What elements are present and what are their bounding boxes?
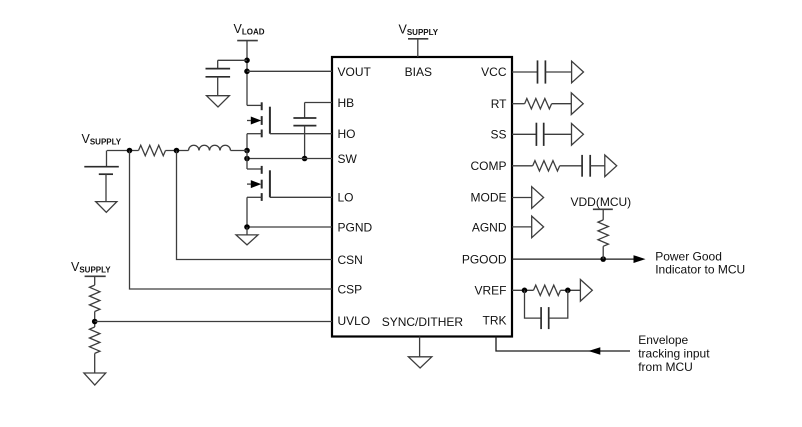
svg-text:Power Good: Power Good: [655, 249, 722, 263]
ground SS: [572, 124, 584, 146]
arrow PGOOD output: [634, 255, 646, 263]
ground VREF: [580, 280, 592, 302]
wire bootstrap cap to SW: [304, 126, 306, 159]
node junction dot VREF left: [522, 288, 528, 294]
node junction dot VLOAD/VOUT: [244, 69, 250, 75]
svg-text:from MCU: from MCU: [638, 360, 693, 374]
node junction dot VREF right: [565, 288, 571, 294]
wire UVLO pin: [95, 321, 332, 323]
node junction dot VSUPPLY/CSP: [127, 148, 133, 154]
node VSUPPLY UVLO rail: [85, 276, 106, 285]
wire HB pin lead: [305, 103, 332, 119]
capacitor Cout: [206, 69, 231, 77]
node junction dot bootstrap/SW: [302, 156, 308, 162]
svg-text:SYNC/DITHER: SYNC/DITHER: [382, 315, 464, 329]
svg-text:Indicator to MCU: Indicator to MCU: [655, 262, 745, 276]
wire pull-up to PGOOD: [602, 246, 604, 259]
wire SS cap to ground: [544, 133, 572, 135]
wire shunt to inductor: [166, 150, 189, 152]
wire CSP pin: [130, 151, 333, 290]
wire RUV2 to ground: [94, 353, 96, 373]
resistor COMP: [533, 161, 560, 171]
wire PGND pin: [247, 226, 332, 228]
node junction dot SW/inductor: [244, 148, 250, 154]
wire TRK pin: [496, 337, 630, 352]
svg-text:HB: HB: [338, 96, 355, 110]
wire inductor to SW node: [231, 150, 248, 152]
wire SW pin: [247, 158, 332, 160]
ground Cout: [207, 96, 230, 107]
transistor Q2 low-side MOSFET: [247, 166, 270, 227]
wire VREF cap branch left: [525, 290, 542, 318]
wire COMP pin: [512, 165, 533, 167]
wire VREF resistor to ground: [561, 289, 581, 291]
wire VCC cap to ground: [545, 71, 571, 73]
svg-text:PGOOD: PGOOD: [462, 252, 507, 266]
svg-text:Envelope: Envelope: [638, 333, 688, 347]
capacitor COMP: [582, 155, 590, 177]
svg-text:MODE: MODE: [471, 191, 507, 205]
node junction dot PGND: [244, 224, 250, 230]
wire SW node vertical to Q2 drain: [246, 151, 248, 170]
svg-text:tracking input: tracking input: [638, 347, 710, 361]
svg-text:BIAS: BIAS: [405, 65, 432, 79]
svg-text:COMP: COMP: [471, 159, 507, 173]
op-amp U1 IC body: [332, 57, 512, 337]
svg-text:LO: LO: [338, 190, 354, 204]
svg-text:VREF: VREF: [474, 283, 506, 297]
node junction dot SW wire: [244, 156, 250, 162]
svg-text:RT: RT: [491, 97, 507, 111]
wire MODE pin: [512, 197, 532, 199]
wire PGOOD pin: [512, 258, 634, 260]
node VDD(MCU) rail: [593, 209, 613, 220]
node VSUPPLY BIAS rail: [408, 39, 428, 57]
ground RT: [571, 93, 583, 115]
wire HO pin (gate of Q1): [270, 133, 332, 135]
svg-text:SS: SS: [490, 127, 506, 141]
svg-text:VOUT: VOUT: [338, 65, 372, 79]
node junction dot UVLO: [92, 319, 98, 325]
capacitor bootstrap HB-SW: [293, 118, 316, 126]
capacitor VREF: [541, 307, 549, 329]
wire RUV1 to node: [94, 312, 96, 328]
ground AGND: [532, 216, 544, 238]
svg-text:VCC: VCC: [481, 65, 507, 79]
inductor L1: [189, 145, 231, 150]
wire Cin bottom lead: [105, 174, 107, 201]
wire VLOAD node vertical to Q1 drain: [246, 60, 248, 105]
wire COMP resistor to cap: [560, 165, 582, 167]
svg-text:CSP: CSP: [338, 282, 363, 296]
wire VCC pin: [512, 71, 538, 73]
wire SS pin: [512, 133, 536, 135]
resistor RT: [525, 99, 552, 109]
svg-text:SW: SW: [338, 152, 358, 166]
arrow TRK input: [588, 347, 600, 355]
ground MODE: [532, 187, 544, 209]
capacitor SS: [536, 123, 543, 146]
wire CSN pin: [177, 151, 333, 260]
wire VREF cap branch right: [549, 290, 568, 318]
node VLOAD supply rail: [237, 41, 258, 61]
ground UVLO divider: [84, 373, 106, 385]
resistor RUV1: [90, 285, 100, 311]
capacitor Cin lead: [106, 151, 108, 167]
transistor Q1 high-side MOSFET: [247, 102, 270, 150]
wire Cout bottom lead: [217, 77, 219, 96]
node VSUPPLY input rail: [107, 150, 139, 152]
resistor PGOOD pull-up: [598, 220, 608, 246]
svg-text:UVLO: UVLO: [338, 314, 371, 328]
wire Cout top lead: [218, 60, 247, 68]
wire VREF pin: [512, 289, 534, 291]
svg-text:VDD(MCU): VDD(MCU): [571, 195, 632, 209]
svg-text:TRK: TRK: [483, 313, 507, 327]
wire LO pin (gate of Q2): [270, 196, 332, 198]
resistor VREF: [534, 285, 561, 295]
ground SYNC/DITHER: [408, 337, 431, 369]
ground VCC: [572, 61, 584, 83]
wire COMP cap to ground: [590, 165, 605, 167]
capacitor VCC bypass: [538, 60, 546, 83]
wire RT pin: [512, 103, 525, 105]
svg-text:PGND: PGND: [338, 220, 373, 234]
node junction dot CSN tap: [174, 148, 180, 154]
node junction dot VLOAD/Cout: [244, 58, 250, 64]
ground Cin: [96, 202, 117, 213]
ground COMP: [605, 155, 617, 177]
wire VOUT pin: [247, 70, 332, 72]
wire RT to ground: [552, 103, 572, 105]
resistor RUV2: [90, 327, 100, 353]
ground PGND: [236, 227, 258, 245]
node junction dot PGOOD: [600, 256, 606, 262]
resistor current sense shunt: [139, 145, 166, 155]
svg-text:CSN: CSN: [338, 253, 363, 267]
svg-text:AGND: AGND: [472, 220, 507, 234]
wire AGND pin: [512, 226, 532, 228]
svg-text:HO: HO: [338, 127, 356, 141]
capacitor Cin: [84, 167, 119, 175]
